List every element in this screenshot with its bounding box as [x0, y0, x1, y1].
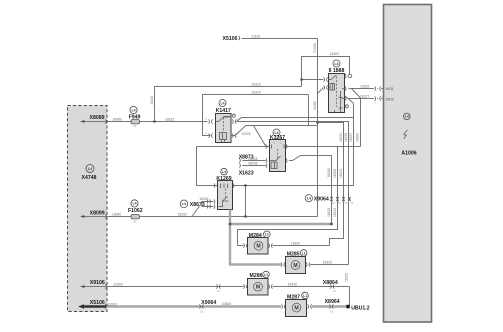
svg-text:UBU1.2: UBU1.2	[351, 306, 370, 312]
node X1623	[239, 162, 266, 177]
svg-text:X8964: X8964	[325, 299, 340, 305]
svg-text:L4: L4	[307, 197, 311, 201]
wire M284 right 16324	[273, 245, 330, 247]
svg-text:X4/11: X4/11	[386, 87, 394, 91]
svg-text:16313: 16313	[339, 169, 343, 178]
wire 31000 row	[107, 286, 243, 288]
relay K1417	[216, 100, 232, 143]
svg-text:16324: 16324	[252, 91, 261, 95]
relay K1269	[216, 168, 232, 209]
wire 16323 riser	[155, 87, 302, 122]
svg-text:L1: L1	[302, 251, 306, 255]
K1417 pin connectors left	[206, 118, 213, 138]
svg-text:34300: 34300	[222, 302, 231, 306]
relay K1267	[270, 129, 286, 172]
svg-text:X9064: X9064	[201, 300, 216, 306]
svg-text:31000: 31000	[114, 283, 123, 287]
svg-text:X9064: X9064	[314, 196, 329, 202]
connector X8864	[323, 280, 338, 293]
wire 18323	[140, 121, 208, 123]
svg-text:16324: 16324	[339, 133, 343, 142]
svg-text:16323: 16323	[150, 96, 154, 105]
K1269 right pin	[233, 183, 234, 187]
svg-text:16326: 16326	[360, 85, 369, 89]
svg-text:16008: 16008	[327, 168, 331, 177]
svg-text:X5106: X5106	[90, 300, 105, 306]
riser link	[196, 147, 198, 186]
wire M285 right 16326	[310, 264, 348, 266]
fuse F1062	[128, 200, 143, 224]
wire 31008 vertical	[317, 39, 319, 217]
svg-text:X5/10: X5/10	[386, 97, 395, 101]
node X5106 ground	[78, 300, 106, 309]
wire 18330 row	[140, 216, 318, 218]
svg-text:A1006: A1006	[401, 151, 416, 157]
svg-text:16324: 16324	[291, 242, 300, 246]
svg-text:F1062: F1062	[128, 208, 143, 214]
svg-text:X4748: X4748	[81, 175, 96, 181]
row K1269 top	[197, 185, 354, 187]
wire 18089	[107, 121, 131, 123]
K1417 pin2 feed 16324	[203, 95, 309, 136]
riser to K1269 top row	[245, 186, 247, 217]
junction at F949 row	[153, 120, 155, 122]
wire 16327 to X5/10	[345, 95, 394, 102]
svg-text:X9106: X9106	[90, 280, 105, 286]
node X8099	[80, 210, 106, 218]
X4748 option circle L4	[86, 165, 94, 173]
A1006 switch symbol	[404, 130, 408, 139]
K1269 pin connectors left	[214, 183, 215, 208]
wire relay pin1 row	[302, 79, 324, 81]
wire K1417 top pin row	[237, 118, 354, 122]
bus v5 16327	[353, 103, 355, 185]
svg-text:L4: L4	[88, 167, 92, 171]
svg-text:18089: 18089	[112, 118, 121, 122]
svg-text:M: M	[256, 285, 260, 291]
wire M284 left	[238, 245, 244, 247]
wire thick M287 out	[312, 305, 347, 307]
control unit A1006 box	[384, 5, 432, 323]
svg-text:31000: 31000	[242, 132, 251, 136]
svg-text:16323: 16323	[330, 52, 339, 56]
row to K1267 pins	[197, 146, 361, 148]
wire K1267 out diag	[289, 156, 332, 161]
thick output K1269	[229, 210, 332, 265]
svg-text:II 1888: II 1888	[329, 68, 345, 74]
svg-text:18080: 18080	[112, 213, 121, 217]
svg-text:M: M	[294, 305, 298, 311]
wire 31500 thick row	[107, 305, 281, 307]
svg-text:L4: L4	[335, 62, 339, 66]
connector X9064 lower	[199, 300, 216, 314]
svg-text:X8864: X8864	[323, 280, 338, 286]
A1006 option circle L4	[404, 113, 411, 120]
svg-text:L4: L4	[222, 170, 226, 174]
svg-text:X8089: X8089	[89, 115, 104, 121]
ground point UBU1.2	[346, 305, 369, 312]
svg-text:16313: 16313	[333, 208, 337, 217]
svg-text:L4: L4	[221, 101, 225, 105]
bus v1 16325	[331, 156, 333, 225]
svg-text:31500: 31500	[108, 302, 117, 306]
svg-text:18328: 18328	[248, 157, 257, 161]
svg-text:M: M	[256, 244, 260, 250]
bus v3 16324	[318, 123, 344, 246]
motor M287	[281, 292, 311, 316]
node X8873	[239, 155, 266, 163]
svg-text:L4: L4	[132, 108, 136, 112]
wire M285 left thick	[229, 263, 281, 265]
wire X5106 row 31100	[222, 34, 317, 42]
relay right pin circle	[345, 74, 352, 108]
relay diag to bus v6	[352, 89, 361, 99]
K1417 right pins	[232, 113, 239, 138]
bus v6 16080	[360, 98, 362, 147]
svg-text:18323: 18323	[165, 118, 174, 122]
wire 18080	[107, 216, 131, 218]
svg-text:36008: 36008	[248, 162, 257, 166]
wire 16329 drop	[349, 287, 351, 306]
svg-text:16080: 16080	[356, 133, 360, 142]
svg-text:31100: 31100	[251, 34, 260, 38]
wire 16326 to X4/11	[345, 85, 394, 92]
svg-text:2A: 2A	[134, 220, 137, 223]
diag to relay pin2	[318, 88, 324, 94]
motor M286	[243, 271, 272, 295]
svg-text:2A: 2A	[134, 125, 137, 128]
svg-text:16326: 16326	[344, 133, 348, 142]
svg-text:X8673: X8673	[190, 202, 205, 208]
svg-text:16327: 16327	[349, 133, 353, 142]
K1267 pin connectors left	[266, 144, 267, 167]
node X8089	[80, 115, 106, 124]
relay II1888 pin connectors left	[324, 77, 328, 89]
wire K1417 mid pin row	[237, 122, 349, 265]
svg-text:16327: 16327	[360, 95, 369, 99]
wire 16323 upper run	[302, 57, 350, 87]
motor M285	[281, 250, 310, 274]
relay diag to bus v5	[345, 96, 354, 104]
svg-text:16325: 16325	[333, 169, 337, 178]
svg-text:L1: L1	[265, 233, 269, 237]
svg-text:16329: 16329	[344, 273, 348, 282]
node X9106	[80, 280, 106, 289]
svg-text:X8099: X8099	[90, 210, 105, 216]
svg-text:L1: L1	[303, 294, 307, 298]
svg-text:L4: L4	[133, 202, 137, 206]
svg-text:L1: L1	[264, 273, 268, 277]
connector X9064 multi	[305, 195, 354, 205]
svg-text:31008: 31008	[313, 101, 317, 110]
K1267 right pin connectors	[286, 144, 287, 162]
svg-text:M: M	[293, 263, 297, 269]
svg-text:L4: L4	[182, 202, 186, 206]
wire 31008 link	[308, 95, 310, 126]
connector X8964	[325, 299, 340, 313]
svg-text:X5106: X5106	[222, 36, 237, 42]
svg-text:X1623: X1623	[239, 171, 254, 177]
inline connector pin 19	[216, 284, 220, 293]
svg-text:16326: 16326	[323, 261, 332, 265]
bus v2 16313	[238, 147, 338, 246]
relay II1888	[329, 60, 345, 113]
harness connector box X4748 (dashed)	[68, 106, 108, 312]
svg-text:L4: L4	[405, 115, 409, 119]
svg-text:14326: 14326	[288, 283, 297, 287]
svg-text:18330: 18330	[178, 213, 187, 217]
wire 31000 peak to K1267	[231, 126, 318, 136]
connector X8673	[180, 197, 213, 217]
svg-text:31008: 31008	[313, 43, 317, 52]
wire 14326 M286 out	[273, 286, 350, 288]
svg-text:16325: 16325	[327, 208, 331, 217]
svg-text:16323: 16323	[252, 82, 261, 86]
fuse F949	[129, 106, 141, 128]
motor M284	[243, 231, 272, 254]
